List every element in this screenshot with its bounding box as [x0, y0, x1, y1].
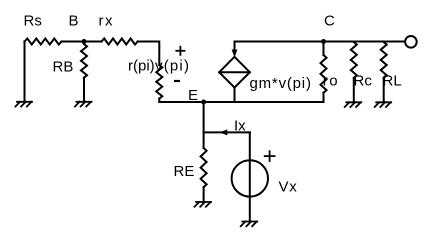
resistor RB [81, 42, 87, 78]
terminal circle (output port) [405, 36, 417, 48]
dependent current source gm*v(pi) diamond U1 [219, 57, 250, 88]
svg-text:Rc: Rc [354, 73, 373, 90]
resistor RE [201, 148, 207, 187]
ground (under RE) [195, 202, 212, 207]
ground (under Rc) [345, 102, 362, 107]
svg-text:ro: ro [323, 73, 339, 90]
wire: ro bottom leg [323, 93, 325, 102]
wire: RL bottom to ground [383, 78, 385, 101]
label + for Vx [264, 150, 276, 162]
svg-text:Vx: Vx [279, 179, 298, 196]
resistor ro [321, 55, 327, 93]
arrowhead Ix (pointing left) [219, 129, 227, 135]
wire: Rc bottom to ground [353, 78, 355, 101]
node B [82, 39, 87, 44]
wire: E drop to RE [203, 102, 205, 148]
label + for v(pi) [175, 46, 185, 56]
wire: Ix branch horizontal [204, 131, 250, 133]
ground (under RB) [75, 102, 92, 107]
wire: r(pi) bottom to rail [158, 99, 160, 102]
ground (under Rs) [15, 102, 32, 107]
wire: RB bottom to ground [83, 78, 85, 101]
resistor RL [381, 42, 387, 78]
wire: ro top leg [323, 42, 325, 56]
current source middle bar [219, 71, 250, 73]
wire: RE bottom to ground [203, 187, 205, 201]
svg-text:C: C [324, 13, 335, 30]
resistor rx [102, 39, 138, 45]
svg-text:RB: RB [53, 59, 74, 76]
svg-text:r(pi): r(pi) [128, 58, 155, 75]
wire: Rs right to node B [62, 41, 102, 43]
current source arrow (down) [232, 50, 238, 58]
svg-text:v(pi): v(pi) [155, 58, 190, 75]
label - for v(pi) [174, 80, 180, 82]
node C [321, 39, 326, 44]
svg-text:RE: RE [174, 163, 195, 180]
resistor Rs [25, 39, 62, 45]
svg-text:gm*v(pi): gm*v(pi) [250, 75, 312, 92]
svg-text:rx: rx [99, 13, 115, 30]
wire: top rail C from current source to terminal [235, 41, 405, 43]
ground (under Vx) [241, 222, 258, 227]
svg-text:RL: RL [383, 73, 402, 90]
wire: current source bottom leg [234, 88, 236, 102]
voltage source Vx circle [232, 160, 268, 196]
svg-text:Ix: Ix [234, 118, 246, 135]
ground (under RL) [375, 102, 392, 107]
wire: bottom rail E [159, 101, 323, 103]
svg-text:Rs: Rs [24, 13, 42, 30]
svg-text:B: B [69, 13, 79, 30]
svg-text:E: E [188, 87, 198, 104]
wire: left drop from Rs to ground [24, 42, 26, 101]
wire: down to Vx and through to ground [249, 132, 251, 220]
wire: current source top leg [234, 42, 236, 51]
resistor Rc [351, 42, 357, 78]
resistor r(pi) [156, 65, 162, 99]
node E [201, 100, 206, 105]
wire: rx right to r(pi) corner [138, 42, 160, 66]
